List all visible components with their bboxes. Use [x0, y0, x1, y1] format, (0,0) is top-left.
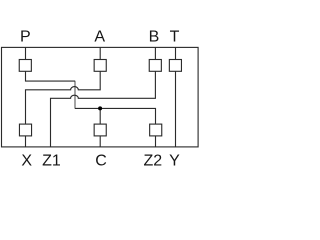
wire: net P vertical crossing under hops at x=75 — [74, 81, 76, 108]
wire: junction down to pad C — [99, 108, 101, 124]
wire: pad X down to bottom edge — [25, 136, 27, 147]
component outline (jack body) — [2, 47, 199, 146]
wire: net P along y=108.4 to Z2 column, down to pad Z2 — [75, 108, 156, 124]
svg-text:X: X — [21, 153, 32, 170]
wire: pin P from top edge down to pad P — [25, 47, 27, 59]
svg-text:Z2: Z2 — [143, 153, 162, 170]
svg-text:P: P — [20, 28, 31, 45]
pad T — [169, 60, 181, 72]
svg-text:T: T — [170, 28, 180, 45]
junction dot — [98, 106, 102, 110]
wire: net A-X (pad A down, left along y=89.8 hopping over x=75, down at x=25.5 to pad X) — [26, 71, 101, 124]
pad P — [19, 60, 31, 72]
wire: net B-Z1 (pad B down, left along y=98.3 hopping over x=75, down at x=50.5 to bottom edge) — [51, 71, 156, 147]
wire: pin T from top edge down to pad T — [175, 47, 177, 59]
pad C — [94, 124, 106, 136]
wire: pad C down to bottom edge — [99, 136, 101, 147]
pad A — [94, 60, 106, 72]
wire: pad Z2 down to bottom edge — [155, 136, 157, 147]
svg-text:B: B — [149, 28, 160, 45]
wire: pin B from top edge down to pad B — [154, 47, 156, 59]
wire: net T-Y (pad T straight down to bottom edge) — [175, 71, 177, 147]
pad B — [149, 60, 161, 72]
pad Z2 — [150, 124, 162, 136]
svg-text:A: A — [94, 28, 105, 45]
svg-text:C: C — [95, 153, 107, 170]
svg-text:Y: Y — [169, 153, 180, 170]
wire: pin A from top edge down to pad A — [99, 47, 101, 59]
svg-text:Z1: Z1 — [42, 153, 61, 170]
wire: net P (pad P down, then right along y=81.1 to crossing column x=75) — [26, 71, 76, 81]
pad X — [19, 124, 31, 136]
